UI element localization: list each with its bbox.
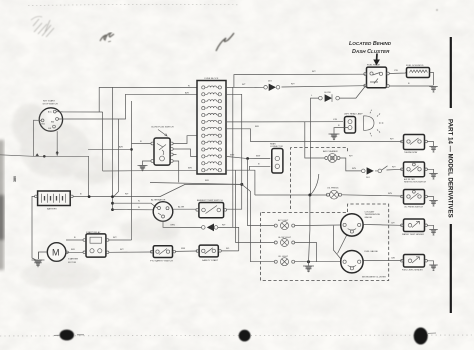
- svg-text:THERMOSTAT: THERMOSTAT: [404, 151, 418, 154]
- fuel level sender: [401, 255, 428, 272]
- punch hole right: [414, 328, 428, 345]
- safety start switch: [196, 245, 221, 262]
- fuel gauge: [341, 250, 379, 273]
- svg-text:DIO: DIO: [268, 81, 272, 83]
- junction dots battery bus: [88, 195, 91, 198]
- arrow from note to relay: [376, 54, 378, 61]
- svg-text:Y/B: Y/B: [394, 70, 398, 72]
- svg-text:STARTER: STARTER: [68, 258, 78, 261]
- svg-text:SAFETY START: SAFETY START: [202, 259, 219, 262]
- wire key BAT to fuse row2: [58, 94, 197, 119]
- svg-text:R/Y: R/Y: [390, 139, 394, 141]
- smudge scribble mid top: [100, 33, 114, 42]
- ground head lamp: [329, 134, 340, 140]
- smudge top left: [31, 16, 54, 37]
- svg-text:R/Y: R/Y: [120, 249, 124, 251]
- svg-text:OIL PRESS: OIL PRESS: [327, 188, 339, 190]
- water temp sender: [401, 219, 428, 236]
- wire rear connector lower: [250, 166, 271, 170]
- svg-text:CONNECTOR: CONNECTOR: [270, 146, 283, 148]
- wire glow diode branch: [311, 86, 366, 195]
- switch contact: [375, 166, 388, 173]
- junction dot cluster ground: [307, 260, 310, 263]
- oil warning lamp: [274, 256, 294, 266]
- wire glow to fuse row11: [173, 149, 197, 156]
- ground fuel solenoid: [429, 87, 438, 93]
- wire lamp3 to fuel gauge: [295, 261, 341, 263]
- wire ACC branch down to lower bus: [102, 112, 104, 171]
- wire water sender ground: [427, 225, 433, 229]
- svg-text:FUEL GAUGE: FUEL GAUGE: [365, 250, 379, 253]
- wire relay right top to V3: [109, 239, 132, 241]
- svg-text:TEMPERATURE: TEMPERATURE: [365, 213, 381, 216]
- junction dot oil press: [308, 194, 311, 197]
- svg-text:G/Y: G/Y: [391, 222, 395, 224]
- wire relay right bottom to safety switch: [109, 251, 152, 253]
- wire lamp2 down: [295, 243, 317, 262]
- svg-text:GLOW: GLOW: [324, 92, 332, 94]
- wire temp switch right up to dot: [227, 184, 242, 209]
- wire fuse row6 to head lamp: [226, 121, 343, 123]
- svg-text:BATTERY: BATTERY: [47, 208, 57, 211]
- key start/stop switch: [39, 100, 62, 132]
- svg-text:B/R: B/R: [255, 126, 259, 128]
- wire alternator bottom to charge diode: [163, 221, 202, 227]
- ground air filter switch: [429, 174, 438, 180]
- wire vertical feed VA: [232, 87, 234, 227]
- left edge dark band: [0, 140, 4, 270]
- wire coolant gauge to sender: [364, 224, 402, 227]
- handwritten note: [349, 41, 392, 55]
- svg-text:AIR FILTER: AIR FILTER: [404, 178, 415, 181]
- diode air filter: [362, 167, 374, 179]
- diode B: [319, 92, 340, 102]
- svg-text:FUEL SOLENOID: FUEL SOLENOID: [406, 65, 424, 67]
- coolant temperature gauge: [341, 210, 381, 236]
- glow warning lamp: [274, 237, 294, 247]
- vertical V3 to start relay: [131, 101, 133, 240]
- wire relay left top: [66, 239, 83, 241]
- svg-text:A/R: A/R: [185, 91, 189, 94]
- svg-text:DIO: DIO: [366, 177, 370, 179]
- PTO safety switch: [150, 246, 176, 263]
- fuel relay: [364, 63, 389, 87]
- glow plug switch: [151, 126, 174, 165]
- wire feed lamp3: [242, 184, 274, 261]
- diode A: [264, 81, 280, 91]
- instrument cluster dashed outline: [261, 204, 389, 281]
- wire alternator to temp switch: [173, 208, 197, 210]
- svg-text:PTO SAFETY SWITCH: PTO SAFETY SWITCH: [150, 259, 173, 262]
- svg-text:RESTRICTION SWITCH: RESTRICTION SWITCH: [404, 182, 427, 184]
- start relay: [83, 231, 109, 257]
- svg-text:W/R: W/R: [181, 248, 186, 250]
- fuel solenoid: [406, 65, 430, 78]
- wire fuse bottom row right: [226, 170, 255, 195]
- wire curve from air filter row to junction: [311, 174, 319, 194]
- wire diode to cluster: [218, 227, 239, 251]
- wire head lamp to ground: [334, 128, 348, 134]
- mottled gray over key switch area: [12, 103, 180, 289]
- wire key IGN down: [56, 131, 58, 156]
- punch hole left: [60, 330, 74, 341]
- wire V3 to glow switch: [132, 143, 151, 145]
- wire glow stub: [173, 154, 176, 156]
- wire left edge bus: [0, 155, 34, 157]
- junction dots on bus: [43, 155, 46, 158]
- svg-text:A/R: A/R: [119, 146, 123, 149]
- gauge link vertical: [333, 226, 340, 259]
- wire feed lamp2: [236, 170, 275, 242]
- starter motor: [47, 243, 78, 264]
- wire to air filter switch: [387, 168, 402, 171]
- wire between safety switches: [176, 250, 198, 252]
- svg-text:ALT/R: ALT/R: [178, 205, 184, 208]
- wire starter to ground: [39, 252, 48, 259]
- wire key ACC to fuse row1: [56, 87, 197, 112]
- svg-text:STOP SWITCH: STOP SWITCH: [43, 104, 59, 106]
- air cleaner heater: [323, 150, 340, 162]
- ground thermostat: [429, 147, 438, 153]
- wire branch down to air cleaner: [305, 122, 325, 158]
- air filter restriction switch: [401, 162, 428, 184]
- wire battery negative to ground: [32, 196, 36, 260]
- top scan edge dotted line: [28, 4, 240, 7]
- svg-text:R/Y: R/Y: [392, 167, 396, 169]
- wire oil press switch ground: [427, 197, 433, 201]
- svg-text:KEY START: KEY START: [43, 100, 56, 103]
- svg-text:REAR: REAR: [270, 143, 276, 146]
- wire A/R to glow switch: [88, 148, 132, 150]
- wire fuse row7 to thermostat: [226, 129, 402, 142]
- ground cluster: [303, 266, 314, 272]
- svg-text:G/B: G/B: [391, 258, 395, 260]
- svg-text:R/N: R/N: [388, 193, 392, 195]
- svg-text:PART 14 — MODEL DERIVATIVES: PART 14 — MODEL DERIVATIVES: [446, 119, 453, 218]
- svg-text:M: M: [52, 247, 60, 257]
- wire junction down to cluster ground: [309, 195, 310, 266]
- punch hole middle: [239, 330, 251, 342]
- wire fuse bottom row left: [103, 169, 197, 172]
- svg-text:FUEL LEVEL SENDER: FUEL LEVEL SENDER: [402, 270, 423, 272]
- wire air filter switch ground: [427, 169, 433, 173]
- svg-text:R/Y: R/Y: [291, 83, 295, 85]
- wire key GND leftward down to bus: [34, 120, 89, 196]
- fuse block: [185, 78, 226, 174]
- svg-text:COOLANT: COOLANT: [365, 210, 376, 213]
- ground battery/starter: [32, 252, 45, 267]
- ground water sender: [429, 230, 438, 236]
- svg-text:380: 380: [13, 176, 17, 182]
- svg-text:INSTRUMENT CLUSTER: INSTRUMENT CLUSTER: [362, 277, 386, 279]
- faint speck top right: [436, 9, 438, 11]
- wire BAT branch down to battery bus: [114, 119, 119, 196]
- engine compartment dashed outline: [291, 148, 348, 209]
- thermostat switch: [401, 135, 428, 155]
- svg-text:ALTERNATOR: ALTERNATOR: [151, 198, 166, 201]
- wire battery positive bus: [73, 184, 242, 196]
- wire oil press feed: [255, 194, 328, 196]
- smudge scribble right top: [216, 33, 234, 51]
- wire glow to fuse row8: [173, 136, 197, 144]
- wire solenoid to ground: [430, 73, 434, 86]
- svg-text:FUEL RELAY: FUEL RELAY: [367, 63, 381, 66]
- gauge link diagonal: [338, 235, 348, 254]
- svg-text:GAUGE: GAUGE: [365, 216, 373, 219]
- svg-text:START RELAY: START RELAY: [86, 231, 101, 234]
- svg-text:OIL PRESS SWITCH: OIL PRESS SWITCH: [404, 206, 423, 208]
- svg-text:R/Y: R/Y: [113, 237, 117, 239]
- svg-text:WATER TEMP SENDER: WATER TEMP SENDER: [402, 233, 424, 236]
- svg-text:R/N: R/N: [352, 168, 356, 170]
- wire fuse row2 right: [226, 94, 242, 184]
- battery: [35, 191, 74, 211]
- svg-text:R/Y: R/Y: [312, 71, 316, 73]
- svg-text:LEFT HEAD LAMP: LEFT HEAD LAMP: [344, 112, 363, 115]
- wire air cleaner to restriction diode: [340, 158, 362, 171]
- wire feed lamp1: [248, 159, 275, 226]
- alternator: [151, 198, 173, 221]
- svg-text:GLOW PLUG SWITCH: GLOW PLUG SWITCH: [151, 126, 174, 128]
- svg-text:FUSE BLOCK: FUSE BLOCK: [205, 78, 219, 80]
- alt warning lamp: [274, 219, 294, 230]
- svg-text:AMBIENT TEMP SWITCH: AMBIENT TEMP SWITCH: [197, 199, 223, 202]
- wire row3 to alternator: [113, 209, 154, 211]
- sidebar rule lower: [450, 224, 452, 313]
- wire glow switch to ground: [143, 161, 151, 165]
- wire row2 to alternator: [113, 203, 158, 208]
- wire fuel gauge to sender: [364, 260, 402, 262]
- svg-text:B/R: B/R: [205, 180, 209, 182]
- bottom scan edge dotted line: [0, 335, 474, 336]
- svg-text:AIR CLEANER: AIR CLEANER: [323, 150, 338, 153]
- ground oil press switch: [429, 201, 438, 207]
- wire glow lower right down: [173, 161, 179, 182]
- wire oil press to switch: [342, 195, 402, 196]
- charge indicator diode: [202, 224, 227, 232]
- head lamp bulb: [364, 110, 384, 137]
- wire thermostat to ground: [427, 142, 433, 147]
- wire relay lower right to ground: [389, 85, 433, 87]
- wire fuel sender ground: [427, 261, 433, 265]
- oil press sender: [326, 188, 341, 199]
- wire fuse row1 through diode A to fuel relay: [226, 86, 365, 88]
- ground fuel sender: [429, 265, 438, 271]
- wire B/R under fuse block: [150, 183, 242, 185]
- junction dot rear connector wire: [246, 157, 249, 160]
- svg-text:R/Y: R/Y: [349, 155, 353, 157]
- wire safety start to cluster feed: [221, 250, 238, 252]
- oil press switch: [401, 190, 428, 209]
- wire relay to fuel solenoid: [389, 72, 406, 75]
- coolant temp switch: [196, 199, 227, 218]
- wire lamp1 to coolant gauge: [295, 224, 341, 227]
- wire starter to relay: [66, 251, 83, 253]
- wire fuse row11 to rear connector: [226, 156, 270, 158]
- svg-text:B/R: B/R: [188, 167, 192, 169]
- junction dot B/R: [240, 183, 243, 186]
- junction dot V3: [130, 148, 133, 151]
- left head lamp connector: [344, 112, 363, 133]
- wire fuse top feed: [234, 74, 365, 87]
- svg-text:B/R: B/R: [71, 249, 75, 251]
- vertical V1 fuse row to battery rows: [112, 87, 114, 209]
- sidebar rule upper: [450, 37, 452, 108]
- rear connector: [270, 143, 283, 173]
- ground glow switch: [138, 166, 148, 172]
